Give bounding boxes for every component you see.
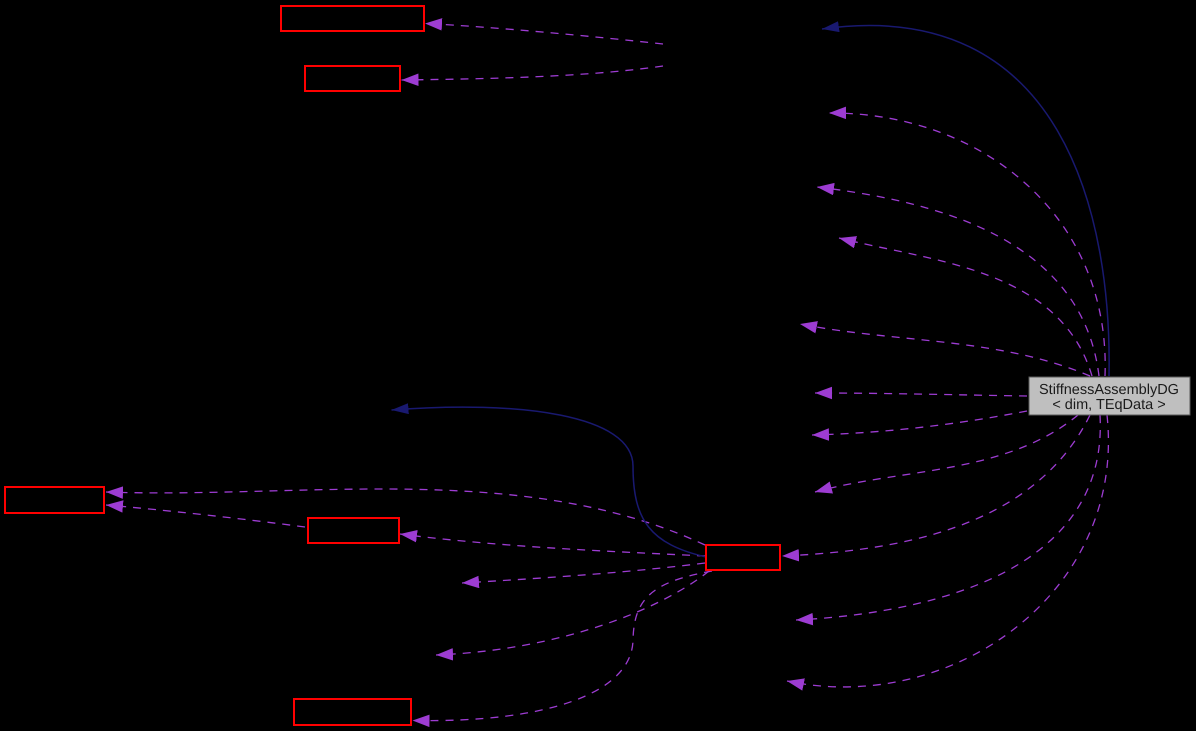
wire N1 to A (425, 24, 663, 45)
wire N1 to B (402, 66, 664, 80)
wire S to F2 (817, 187, 1099, 376)
node B red box (305, 66, 400, 91)
wire E to C upper (106, 489, 705, 545)
wire S to F6 (812, 411, 1027, 435)
node C red box (5, 487, 104, 513)
wire E to F11 (436, 571, 709, 655)
node E red box (706, 545, 780, 570)
wire S to E (782, 415, 1090, 556)
node D red box (308, 518, 399, 543)
wire S to F3 (839, 238, 1092, 376)
wire blue inheritance S up (822, 26, 1109, 376)
wire S to F9 (787, 415, 1108, 687)
wire S to F1 (829, 113, 1105, 376)
node StiffnessAssemblyDG (1029, 377, 1190, 415)
node A red box (281, 6, 424, 31)
wire S to F7 (815, 415, 1078, 492)
wire blue inheritance E left (392, 407, 707, 557)
wire E to F (413, 571, 713, 721)
wire D to C (106, 505, 305, 527)
svg-text:StiffnessAssemblyDG: StiffnessAssemblyDG (1039, 382, 1179, 398)
wire E to D (400, 534, 705, 556)
wire E to F10 (462, 563, 705, 583)
wire S to F4 (800, 324, 1090, 376)
svg-text:< dim, TEqData >: < dim, TEqData > (1052, 397, 1165, 413)
wire S to F8 (796, 415, 1100, 620)
node F red box (294, 699, 411, 725)
wire S to F5 (815, 393, 1027, 396)
